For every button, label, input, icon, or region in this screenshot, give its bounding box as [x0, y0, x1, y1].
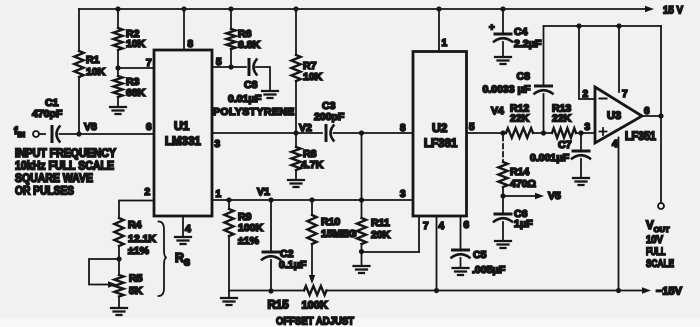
- svg-text:0.0033 μF: 0.0033 μF: [483, 84, 531, 96]
- svg-text:100K: 100K: [302, 300, 328, 312]
- svg-text:5K: 5K: [129, 285, 143, 297]
- svg-text:0.1μF: 0.1μF: [279, 259, 307, 271]
- svg-text:10V: 10V: [646, 234, 664, 246]
- svg-text:SCALE: SCALE: [646, 258, 674, 270]
- svg-text:20K: 20K: [371, 229, 391, 241]
- svg-text:OR PULSES: OR PULSES: [15, 186, 74, 198]
- svg-text:5: 5: [216, 57, 222, 68]
- svg-text:R11: R11: [371, 217, 390, 229]
- resistor R4: [114, 218, 123, 246]
- capacitor C1 470pF: [51, 127, 54, 142]
- resistor R12: [506, 128, 533, 138]
- svg-text:0.01μF: 0.01μF: [228, 93, 262, 105]
- svg-text:3: 3: [400, 189, 406, 200]
- wire pin4 U3 to -15V: [618, 138, 620, 291]
- node C2: [268, 197, 273, 202]
- svg-text:7: 7: [622, 89, 628, 100]
- wire V1 line: [212, 199, 413, 201]
- node C8b: [541, 130, 546, 135]
- svg-text:4: 4: [439, 221, 445, 232]
- svg-text:12.1K: 12.1K: [128, 233, 156, 245]
- svg-text:LM331: LM331: [165, 136, 201, 148]
- svg-text:10K: 10K: [126, 38, 146, 50]
- svg-text:1: 1: [442, 38, 448, 49]
- svg-text:470pF: 470pF: [32, 108, 63, 120]
- wire bottom rail -15V: [327, 290, 644, 292]
- ground C5: [453, 268, 469, 275]
- wire bottom rail left segment: [229, 290, 304, 292]
- wire pin7 U2: [418, 216, 420, 252]
- resistor R1: [78, 9, 80, 51]
- wire V2 line: [212, 132, 296, 134]
- svg-text:200pF: 200pF: [314, 111, 345, 123]
- resistor R11: [361, 135, 363, 218]
- wire pin7 U3: [616, 23, 621, 28]
- wire pin5 U2 output: [467, 132, 507, 134]
- power rail 15V: [79, 8, 646, 10]
- svg-text:4.7K: 4.7K: [301, 159, 324, 171]
- resistor R6: [228, 6, 233, 11]
- svg-text:V8: V8: [84, 121, 97, 133]
- svg-text:22K: 22K: [510, 113, 530, 125]
- svg-text:LF381: LF381: [424, 138, 458, 150]
- svg-text:6: 6: [146, 122, 152, 133]
- capacitor C5: [460, 216, 462, 249]
- svg-text:R10: R10: [321, 216, 340, 228]
- svg-text:10kHz FULL SCALE: 10kHz FULL SCALE: [15, 161, 114, 173]
- wire pin8 U1: [181, 6, 186, 11]
- svg-text:2: 2: [583, 89, 589, 100]
- wire pin4 U2 to rail: [436, 216, 438, 291]
- svg-text:68K: 68K: [126, 87, 146, 99]
- svg-text:4: 4: [185, 223, 191, 235]
- ground C7: [573, 178, 589, 185]
- node C7: [578, 130, 583, 135]
- svg-text:INPUT FREQUENCY: INPUT FREQUENCY: [15, 148, 116, 160]
- ground pin4 U1: [175, 237, 191, 244]
- node pin4 U3 on rail: [616, 288, 621, 293]
- resistor R8: [295, 133, 297, 147]
- capacitor C3 200pF: [296, 132, 322, 134]
- svg-text:C5: C5: [473, 249, 487, 261]
- svg-text:7: 7: [423, 221, 429, 232]
- capacitor C8 0.0033uF: [543, 26, 545, 85]
- resistor R13: [552, 128, 576, 138]
- wiper loop R5: [89, 259, 119, 285]
- node R11: [359, 197, 364, 202]
- IC U2 LF381: [413, 52, 467, 217]
- svg-text:LF351: LF351: [625, 129, 656, 143]
- svg-text:.005μF: .005μF: [472, 264, 506, 276]
- svg-text:5: 5: [469, 122, 475, 133]
- ground R3: [110, 107, 126, 114]
- capacitor C7: [580, 133, 582, 150]
- wire pin4 U1: [182, 216, 184, 237]
- svg-text:U2: U2: [432, 121, 448, 135]
- svg-text:3: 3: [215, 139, 221, 150]
- ground R5: [118, 297, 120, 309]
- svg-text:4: 4: [612, 139, 618, 150]
- potentiometer R15 100K offset adjust: [304, 286, 327, 295]
- svg-text:8: 8: [400, 123, 406, 134]
- svg-text:3: 3: [585, 122, 591, 133]
- capacitor C8 0.01uF: [248, 60, 251, 75]
- svg-text:1: 1: [216, 189, 222, 200]
- node V8: [76, 131, 81, 136]
- svg-text:R5: R5: [129, 273, 143, 285]
- svg-text:10K: 10K: [303, 71, 323, 83]
- svg-text:V1: V1: [257, 186, 270, 198]
- wire R11 to pin7 U2: [362, 251, 420, 253]
- node R10: [309, 197, 314, 202]
- ground R8: [288, 180, 304, 187]
- svg-text:+: +: [489, 22, 495, 33]
- svg-text:6.8K: 6.8K: [238, 39, 261, 51]
- svg-text:±1%: ±1%: [128, 245, 150, 257]
- node R9: [226, 197, 231, 202]
- wire pin1 U2: [436, 6, 441, 11]
- resistor R3: [117, 68, 119, 76]
- ground C6: [495, 241, 511, 248]
- wire pin2 U3: [576, 23, 581, 28]
- svg-text:R4: R4: [128, 219, 142, 231]
- svg-text:C8: C8: [517, 71, 531, 83]
- node C2 bottom: [268, 288, 273, 293]
- svg-text:OFFSET ADJUST: OFFSET ADJUST: [276, 316, 354, 327]
- svg-text:100K: 100K: [238, 222, 264, 234]
- op-amp U3 LF351: [595, 87, 642, 143]
- ground C8: [262, 91, 278, 98]
- svg-text:15MEG: 15MEG: [321, 228, 357, 240]
- capacitor C2: [270, 200, 272, 251]
- wire output U3: [642, 115, 661, 117]
- svg-text:SQUARE WAVE: SQUARE WAVE: [15, 173, 93, 185]
- svg-text:POLYSTYRENE: POLYSTYRENE: [213, 106, 295, 118]
- svg-text:6: 6: [464, 220, 470, 231]
- wire pin5 U1: [212, 66, 246, 68]
- svg-text:C8: C8: [244, 79, 258, 91]
- capacitor C6: [502, 196, 504, 213]
- node V5: [500, 193, 505, 198]
- node after C3: [359, 130, 364, 135]
- wire node V8 to pin6: [60, 133, 155, 135]
- node V2: [293, 130, 298, 135]
- svg-text:−15V: −15V: [656, 286, 683, 298]
- wire to Vout: [660, 116, 662, 203]
- svg-text:U3: U3: [607, 110, 621, 122]
- svg-text:R1: R1: [86, 54, 100, 66]
- ground C4: [495, 57, 511, 64]
- resistor R5 pot: [114, 275, 123, 297]
- svg-text:C7: C7: [558, 139, 572, 151]
- resistor R7: [293, 6, 298, 11]
- IC U1 LM331: [154, 50, 212, 216]
- svg-text:V4: V4: [491, 105, 504, 117]
- feedback wire top: [544, 25, 662, 27]
- ground bottom left: [228, 291, 230, 299]
- ground R11: [354, 266, 370, 273]
- wire pin2 U1: [119, 201, 154, 219]
- svg-text:R15: R15: [268, 300, 290, 312]
- svg-text:15 V: 15 V: [663, 5, 684, 17]
- svg-text:470Ω: 470Ω: [510, 178, 536, 190]
- node pin4 U2 on rail: [434, 288, 439, 293]
- wire input: [39, 133, 45, 135]
- svg-text:7: 7: [146, 58, 152, 69]
- svg-text:1μF: 1μF: [514, 218, 533, 230]
- terminal Vout: [658, 203, 664, 209]
- svg-text:10K: 10K: [86, 66, 106, 78]
- resistor R2: [115, 6, 120, 11]
- wire pin7 U1: [115, 65, 120, 70]
- svg-text:2.2μF: 2.2μF: [514, 38, 542, 50]
- brace RS: [159, 222, 167, 297]
- svg-text:R14: R14: [510, 166, 529, 178]
- svg-text:0.001μF: 0.001μF: [530, 152, 570, 164]
- node V4: [500, 130, 505, 135]
- svg-text:±1%: ±1%: [238, 235, 260, 247]
- resistor R9: [228, 200, 230, 209]
- svg-text:C4: C4: [514, 26, 528, 38]
- svg-text:U1: U1: [174, 119, 190, 133]
- svg-text:FULL: FULL: [646, 246, 666, 258]
- resistor R14: [502, 136, 504, 161]
- resistor R10: [311, 200, 313, 215]
- svg-text:22K: 22K: [552, 113, 572, 125]
- wire V5: [503, 195, 537, 197]
- svg-text:8: 8: [188, 39, 194, 50]
- svg-text:V5: V5: [548, 190, 561, 202]
- wire R4-R5: [118, 246, 120, 275]
- svg-text:2: 2: [145, 187, 151, 198]
- capacitor C4: [500, 6, 505, 11]
